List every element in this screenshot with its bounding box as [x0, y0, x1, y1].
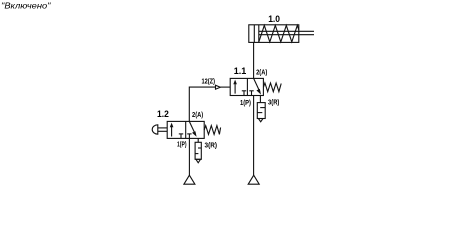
pilot wire valve 1.2 output 2(A) to valve 1.1 port 12(Z) [189, 87, 215, 121]
svg-text:1.1: 1.1 [234, 66, 247, 76]
svg-text:2(A): 2(A) [192, 112, 203, 119]
valve 1.1 left position blocked port [243, 91, 245, 96]
valve 1.2 return spring [204, 126, 220, 135]
svg-text:3(R): 3(R) [268, 99, 279, 106]
svg-text:2(A): 2(A) [256, 69, 267, 76]
valve 1.1 left position flow arrow [234, 82, 236, 94]
valve 1.2 push button actuator [158, 127, 168, 129]
svg-text:1(P): 1(P) [240, 100, 251, 107]
valve 1.2 left position blocked port [180, 134, 182, 139]
valve 1.2 body (two position squares) [167, 121, 204, 138]
valve 1.1 right position flow path 2(A) to 3(R) [254, 78, 260, 91]
svg-text:12(Z): 12(Z) [202, 78, 216, 85]
air supply source below valve 1.1 [248, 175, 259, 184]
valve 1.2 right position flow path 2(A) to 3(R) [189, 121, 195, 134]
svg-text:1(P): 1(P) [177, 141, 187, 148]
valve 1.2 left position flow arrow [171, 125, 173, 137]
svg-text:1.0: 1.0 [268, 14, 280, 24]
exhaust silencer at valve 1.1 port 3(R) [259, 96, 261, 103]
exhaust silencer at valve 1.2 port 3(R) [197, 138, 199, 142]
wire cylinder 1.0 to valve 1.1 port 2(A) [253, 42, 255, 78]
valve 1.2 right position blocked port 1(P) [188, 134, 190, 139]
air supply source below valve 1.2 [184, 175, 195, 184]
valve 1.1 return spring [263, 83, 281, 92]
cylinder 1.0 body [249, 25, 299, 43]
svg-text:"Включено": "Включено" [1, 2, 52, 11]
wire valve 1.2 port 1(P) to air supply [188, 138, 190, 175]
valve 1.1 right position blocked port 1(P) [251, 91, 253, 96]
valve 1.1 pilot port 12(Z) triangle [220, 86, 230, 88]
wire valve 1.1 port 1(P) to air supply [253, 96, 255, 176]
valve 1.1 body (two position squares) [230, 78, 263, 95]
cylinder 1.0 return spring [259, 25, 299, 42]
svg-text:3(R): 3(R) [205, 142, 218, 149]
cylinder 1.0 piston [253, 25, 255, 43]
svg-text:1.2: 1.2 [157, 109, 169, 119]
cylinder 1.0 piston rod [259, 30, 314, 32]
